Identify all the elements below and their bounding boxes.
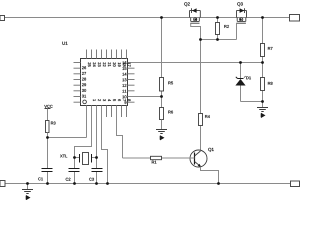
U1 right pin stubs xyxy=(128,68,135,102)
ground under R8 xyxy=(257,102,268,118)
label C2 xyxy=(66,178,71,181)
junction R5 top on rail xyxy=(160,16,163,19)
connector P4 bottom-right xyxy=(291,181,300,187)
power VCC xyxy=(45,109,51,121)
resistor R2 xyxy=(216,18,220,40)
junction R5/R6 node (pin10 net) xyxy=(160,95,163,98)
label XTL xyxy=(60,155,67,158)
junction R2 top on rail xyxy=(216,16,219,19)
resistor R6 xyxy=(160,108,164,130)
label R7 xyxy=(268,47,273,50)
connector P3 bottom-left xyxy=(0,181,5,187)
U1 bottom pin stubs xyxy=(107,106,127,118)
crystal XTL xyxy=(75,153,97,165)
label R4 xyxy=(205,115,210,118)
U1 bottom pin numbers xyxy=(93,99,131,101)
resistor R7 xyxy=(261,18,265,63)
U1 right pin numbers xyxy=(122,61,126,104)
U1 left pin stubs xyxy=(74,63,81,103)
wire Q3 gate lead xyxy=(236,23,238,39)
junction R2 bottom / gate bus xyxy=(216,38,219,41)
transistor Q1 (NPN) xyxy=(190,150,207,167)
junction ground tap on bottom rail xyxy=(26,182,29,185)
connector P1 top-left xyxy=(0,16,5,21)
wire R3 node to U1 bottom pin xyxy=(48,106,87,138)
junction Q2 gate / R4 xyxy=(199,38,202,41)
junction R3 bottom node xyxy=(46,136,49,139)
wire Q1 emitter lead xyxy=(201,167,219,184)
resistor R4 xyxy=(199,40,203,151)
label R2 xyxy=(224,25,229,28)
junction crystal left node xyxy=(73,156,76,159)
junction R8 bottom / D1 anode xyxy=(261,100,264,103)
label Q1 xyxy=(208,148,214,152)
resistor R5 xyxy=(160,18,164,108)
junction C3 on bottom rail xyxy=(95,182,98,185)
junction crystal right node xyxy=(95,156,98,159)
capacitor C3 xyxy=(92,158,103,184)
diode D1 (zener) xyxy=(235,63,262,102)
U1 left pin numbers xyxy=(82,66,86,97)
label C1 xyxy=(38,178,43,181)
capacitor C1 xyxy=(42,138,53,184)
ground under R6 xyxy=(156,130,167,140)
label U1 xyxy=(62,42,67,45)
wire U1 pin10 to R5/R6 node xyxy=(128,96,162,98)
junction R7 top on rail xyxy=(261,16,264,19)
label VCC xyxy=(44,105,52,108)
IC U1 body xyxy=(81,59,128,106)
label R8 xyxy=(268,82,273,85)
label Q3 xyxy=(237,2,243,6)
junction R7 bottom / R8 top xyxy=(261,61,264,64)
wire bottom rail xyxy=(6,183,291,185)
label Q2 xyxy=(184,2,190,6)
resistor R1 xyxy=(123,156,195,159)
label C3 xyxy=(89,178,94,181)
junction Q1 emitter on bottom rail xyxy=(217,182,220,185)
ground at bottom-left rail xyxy=(22,184,33,200)
wire U1 pin to bottom rail xyxy=(102,106,108,184)
junction IC pin wire on bottom rail xyxy=(106,182,109,185)
U1 pin1 circle xyxy=(83,100,87,104)
resistor R3 xyxy=(46,121,50,138)
wire U1 pin16 to right xyxy=(128,62,263,64)
wire top rail xyxy=(5,17,290,19)
wire U1 pin to crystal right xyxy=(96,106,98,158)
resistor R8 xyxy=(261,63,265,102)
junction C2 on bottom rail xyxy=(73,182,76,185)
wire Q2 gate lead xyxy=(191,23,201,39)
capacitor C2 xyxy=(69,158,80,184)
label R5 xyxy=(168,82,173,85)
junction C1 on bottom rail xyxy=(46,182,49,185)
junction D1 cathode on pin16 net xyxy=(239,61,242,64)
transistor Q3 (MOSFET with body diode, mirrored) xyxy=(236,8,246,23)
connector P2 top-right xyxy=(290,15,300,22)
U1 top pin numbers xyxy=(88,63,131,67)
transistor Q2 (MOSFET with body diode) xyxy=(190,8,201,23)
wire U1 pin to crystal left xyxy=(75,106,92,158)
U1 top pin stubs xyxy=(87,50,127,59)
wire gate bus xyxy=(201,39,237,41)
wire U1 pin to R1 xyxy=(117,106,123,159)
label R1 xyxy=(152,161,157,164)
label D1 xyxy=(246,76,251,79)
label R6 xyxy=(168,111,173,114)
label R3 xyxy=(51,122,56,125)
